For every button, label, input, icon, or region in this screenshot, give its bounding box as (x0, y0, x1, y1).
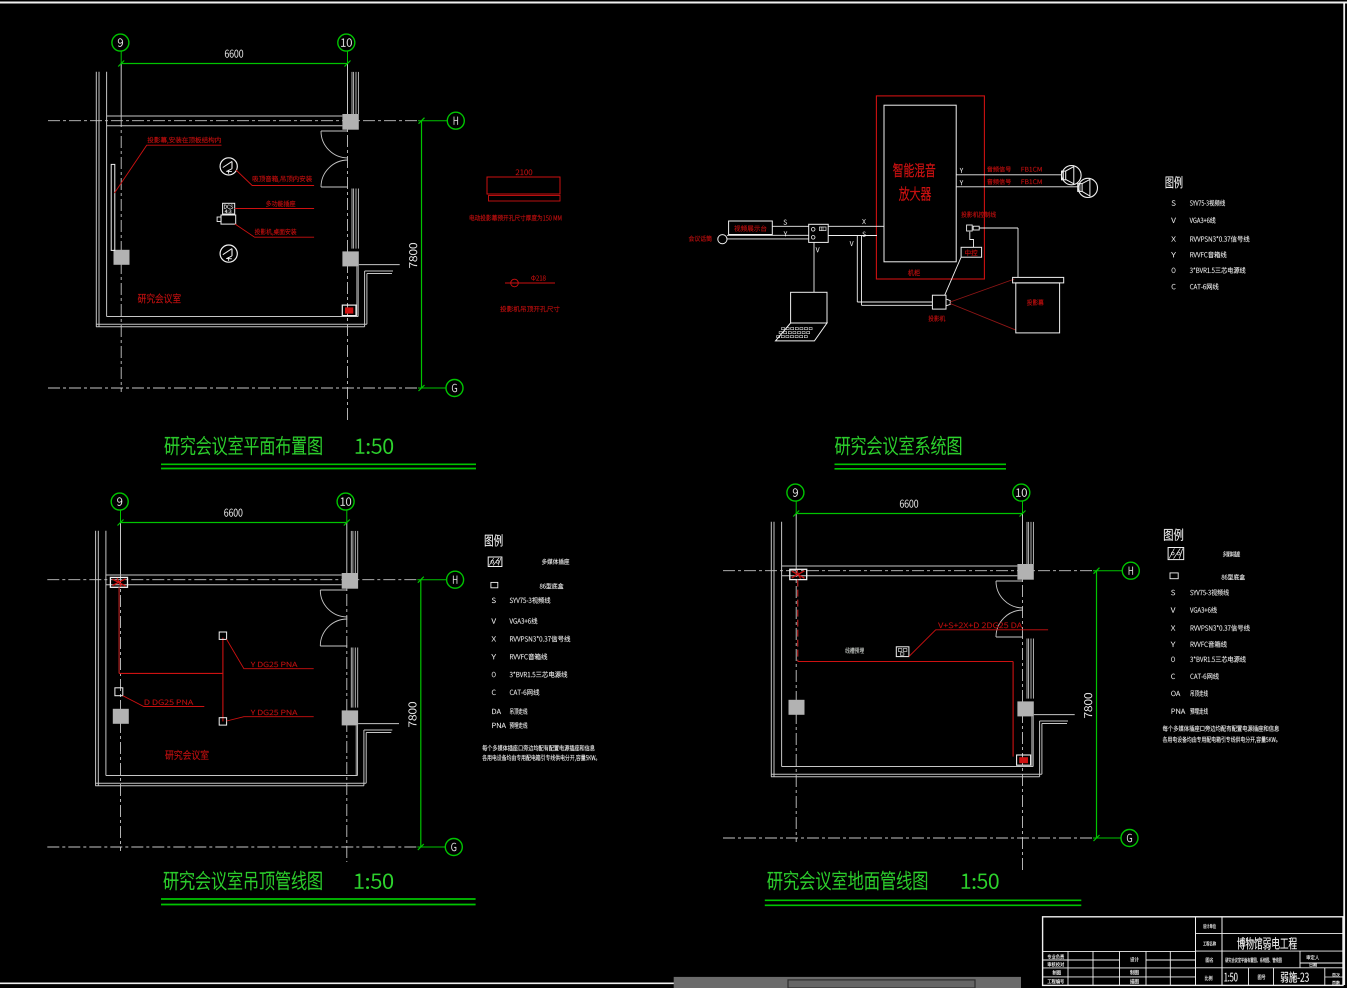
ceiling speaker bottom (220, 245, 237, 262)
wire grid line H horizontal (48, 120, 418, 122)
node grid bubble G (446, 380, 463, 397)
window right lower (351, 189, 353, 249)
legend heading middle (485, 535, 493, 547)
switcher box (809, 224, 829, 242)
node grid bubble 9 (111, 493, 128, 510)
legend row Y (492, 654, 496, 659)
leader speaker label (236, 170, 314, 186)
node grid bubble 9 (787, 484, 804, 501)
projector box sys (932, 295, 946, 309)
detail screen note text (470, 215, 475, 221)
central control box (961, 247, 982, 257)
title block grid lines (1195, 917, 1197, 986)
dimension 6600 top (121, 63, 347, 65)
wire switcher V to laptop (813, 242, 815, 292)
column right bottom (1017, 701, 1033, 716)
sheet frame bottom line (0, 982, 676, 984)
project name 博物馆弱电工程 (1237, 937, 1245, 949)
legend row O (1172, 268, 1176, 273)
legend row V (492, 618, 496, 623)
scale 1:50 (1224, 973, 1227, 981)
leader Y DG25 PNA upper (227, 639, 314, 668)
conduit red vertical branch (222, 638, 224, 722)
door double leaf in right wall (320, 589, 347, 591)
legend row X (1171, 236, 1175, 241)
wall below door pair (356, 266, 358, 316)
wall top band (106, 574, 342, 576)
dimension 7800 right (1096, 571, 1098, 838)
sheet frame right line (1343, 3, 1345, 986)
wall top band (782, 565, 1018, 567)
leader D DG25 PNA (123, 696, 205, 707)
column right top (342, 573, 358, 589)
dimension 6600 top (796, 513, 1022, 515)
leader cable bundle label (909, 630, 1048, 657)
wall left (95, 72, 97, 327)
taskbar gray strip (674, 977, 1021, 988)
leader Y DG25 PNA lower (227, 717, 314, 721)
wire grid line 9 vertical (795, 501, 797, 514)
wall below door pair (1031, 716, 1033, 766)
column left bottom (789, 700, 805, 715)
laptop computer (791, 292, 827, 323)
wall top band (107, 115, 343, 117)
legend row C (1172, 284, 1176, 289)
legend row V (1171, 218, 1175, 223)
junction box ceiling 2 (219, 718, 226, 725)
wire grid line 10 vertical (346, 510, 348, 523)
wire connector to screen (979, 227, 1018, 229)
wire switcher to amp X (828, 225, 884, 227)
window right lower (1026, 639, 1028, 699)
floor junction box with sockets (896, 647, 909, 657)
wire grid line 10 vertical (1022, 501, 1024, 514)
legend row V (1171, 607, 1175, 612)
wire grid line H horizontal (47, 579, 417, 581)
legend row DA (492, 709, 496, 714)
title plan3 green (767, 872, 782, 890)
legend row S (1172, 200, 1176, 205)
dimension 6600 top (121, 522, 347, 524)
wire connector to central control (970, 232, 974, 248)
conduit red horizontal plan3 (798, 661, 1013, 663)
loudspeaker 1 (1062, 166, 1081, 185)
legend row Y (1171, 642, 1175, 647)
column right bottom (342, 251, 358, 266)
detail projector hole note (500, 306, 506, 312)
wire grid line G horizontal (48, 387, 418, 389)
node grid bubble H (447, 571, 464, 588)
wire presenter to switcher S (772, 225, 808, 227)
wall step right (358, 723, 399, 725)
title block labels right (1203, 924, 1206, 929)
wall step right (359, 264, 400, 266)
sheet number 弱施-23 (1281, 972, 1288, 983)
wire switcher V to projector (856, 236, 858, 303)
amplifier unit U1 (884, 105, 956, 262)
wire mic to switcher Y (727, 234, 809, 236)
wire amp to speakers Y upper (956, 174, 1061, 176)
junction box wall left (115, 688, 123, 696)
legend row C (492, 690, 496, 695)
wire central control to projector (945, 257, 961, 295)
taskbar pressed button (788, 980, 975, 988)
conduit red vertical from outlet (118, 587, 120, 673)
legend row O (1171, 657, 1175, 662)
wire grid line 10 vertical (347, 51, 349, 64)
title block frame (1043, 917, 1343, 986)
wire amp to speakers Y lower (956, 186, 1077, 188)
node grid bubble G (445, 839, 462, 856)
node grid bubble 10 (1013, 484, 1030, 501)
wall below door pair (355, 725, 357, 775)
projection screen bar on left wall (111, 164, 115, 250)
amplifier cabinet red rectangle (876, 96, 984, 279)
legend symbol 86 box (491, 582, 498, 587)
window right upper (350, 531, 352, 573)
column left bottom (113, 709, 129, 724)
window right upper (351, 72, 353, 114)
door double leaf in right wall (321, 130, 348, 132)
column right top (1017, 564, 1033, 580)
legend symbol 86 box 2 (1170, 573, 1178, 579)
legend symbol multimedia outlet (488, 557, 502, 567)
legend notes middle (482, 745, 487, 751)
trunking label gray (845, 647, 849, 653)
node grid bubble 10 (337, 493, 354, 510)
window right lower (350, 648, 352, 708)
conduit red vertical plan3 (797, 580, 799, 662)
node grid bubble G (1121, 830, 1138, 847)
legend row Y (1171, 252, 1175, 257)
leader projector label (235, 224, 314, 237)
wall bottom (107, 316, 359, 318)
multimedia outlet box at grid9 H (110, 577, 127, 587)
wire grid line G horizontal (723, 837, 1093, 839)
conduit red horizontal (119, 672, 223, 674)
wall left (770, 522, 772, 777)
projector on table (221, 215, 236, 224)
detail screen opening 2100 rectangle (487, 177, 560, 194)
legend row PNA (1172, 709, 1175, 714)
legend row S (1171, 590, 1175, 595)
legend notes bottom right (1163, 725, 1168, 731)
title block small labels left (1048, 954, 1052, 959)
column left bottom (114, 250, 130, 265)
detail projector hole symbol (505, 282, 555, 284)
title sysdiag green (835, 437, 850, 455)
node grid bubble 9 (112, 34, 129, 51)
sheet frame top line (0, 2, 1347, 4)
wire grid line 9 vertical (120, 51, 122, 64)
legend row C (1171, 674, 1175, 679)
node grid bubble 10 (338, 34, 355, 51)
junction box ceiling 1 (219, 632, 226, 639)
multimedia socket DCS box (223, 203, 235, 214)
legend row X (1171, 625, 1175, 630)
leader projection screen label (115, 145, 222, 193)
control connector symbol (967, 225, 973, 231)
multimedia outlet box plan3 (790, 569, 807, 579)
column right top (342, 114, 358, 130)
video presenter box (729, 221, 773, 235)
conduit red vertical right plan3 (1012, 662, 1014, 757)
title plan1 green (165, 437, 180, 455)
floor outlet box red (342, 305, 356, 316)
leader socket label (235, 208, 314, 210)
wall step right (1034, 714, 1075, 716)
window right upper (1026, 522, 1028, 564)
floor outlet red box plan3 (1017, 755, 1031, 765)
door double leaf in right wall (996, 580, 1023, 582)
microphone symbol (718, 235, 727, 244)
ceiling speaker top (220, 158, 237, 175)
legend heading bottom right (1164, 529, 1172, 541)
projector control label (961, 212, 966, 218)
node grid bubble H (447, 112, 464, 129)
wall bottom (106, 775, 358, 777)
projection cone red (950, 279, 1014, 302)
legend row OA (1171, 691, 1175, 696)
dimension 7800 right (420, 580, 422, 847)
title plan2 green (164, 872, 179, 890)
dimension 7800 right (421, 121, 423, 388)
wall bottom (782, 766, 1034, 768)
wire grid line H horizontal (723, 570, 1093, 572)
wall left (95, 531, 97, 786)
loudspeaker 2 (1078, 178, 1097, 197)
legend heading top right (1166, 177, 1173, 189)
legend row S (492, 598, 496, 603)
column right bottom (342, 710, 358, 725)
room label plan2 (165, 751, 173, 760)
legend row X (492, 636, 496, 641)
wire grid line 9 vertical (120, 510, 122, 523)
node grid bubble H (1122, 562, 1139, 579)
legend row PNA (492, 723, 495, 728)
wire grid line G horizontal (47, 846, 417, 848)
wire switcher to amp S (828, 235, 877, 237)
legend row O (492, 672, 496, 677)
projection screen sys (1013, 277, 1064, 283)
room label 研究会议室 (138, 294, 146, 303)
legend symbol multimedia outlet 2 (1168, 548, 1184, 560)
